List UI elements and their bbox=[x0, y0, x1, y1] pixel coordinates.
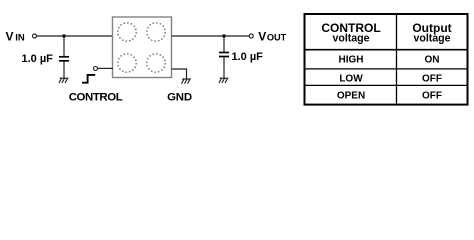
control step waveform symbol bbox=[82, 75, 95, 83]
IC pad circle top-left bbox=[118, 23, 136, 41]
IC U1 body bbox=[113, 17, 172, 78]
table header divider bbox=[305, 49, 468, 51]
svg-text:GND: GND bbox=[167, 92, 192, 104]
ground (GND pin) bbox=[182, 79, 191, 84]
svg-text:HIGH: HIGH bbox=[339, 54, 364, 65]
wire IC GND pin bbox=[172, 69, 187, 79]
svg-text:voltage: voltage bbox=[332, 33, 369, 45]
svg-text:LOW: LOW bbox=[339, 73, 363, 84]
svg-text:1.0 µF: 1.0 µF bbox=[22, 53, 54, 65]
wire C2 to ground bbox=[223, 57, 225, 78]
IC pad circle top-right bbox=[147, 23, 165, 41]
svg-text:CONTROL: CONTROL bbox=[69, 92, 123, 104]
terminal VIN bbox=[33, 34, 37, 38]
table row divider 2 bbox=[305, 84, 468, 86]
node output junction bbox=[222, 34, 226, 38]
wire C1 to ground bbox=[63, 62, 65, 78]
svg-text:OFF: OFF bbox=[422, 90, 442, 101]
svg-text:OPEN: OPEN bbox=[337, 90, 365, 101]
ground (left capacitor) bbox=[59, 78, 68, 83]
svg-text:OFF: OFF bbox=[422, 73, 442, 84]
terminal VOUT bbox=[249, 34, 253, 38]
table row divider 1 bbox=[305, 68, 468, 70]
svg-text:V: V bbox=[6, 30, 14, 44]
table column divider bbox=[396, 14, 398, 105]
svg-text:1.0 µF: 1.0 µF bbox=[232, 51, 264, 63]
wire CONTROL to IC bbox=[98, 67, 113, 69]
table: truth table bbox=[305, 14, 468, 105]
capacitor C2 1.0 uF bbox=[219, 52, 229, 54]
IC pad circle bottom-right bbox=[147, 54, 165, 72]
svg-text:IN: IN bbox=[15, 33, 25, 44]
capacitor C1 1.0 uF bbox=[59, 56, 69, 58]
terminal CONTROL bbox=[94, 66, 98, 70]
IC pad circle bottom-left bbox=[118, 54, 136, 72]
table outer border bbox=[305, 14, 468, 105]
svg-text:OUT: OUT bbox=[267, 33, 287, 43]
svg-text:V: V bbox=[258, 30, 266, 44]
svg-text:ON: ON bbox=[425, 54, 440, 65]
wire IC to VOUT bbox=[172, 35, 250, 37]
ground (right capacitor) bbox=[219, 78, 228, 83]
wire VIN to IC bbox=[37, 35, 113, 37]
svg-text:voltage: voltage bbox=[413, 33, 450, 45]
wire junction to C1 bbox=[63, 36, 65, 56]
node input junction bbox=[62, 34, 66, 38]
wire junction to C2 bbox=[223, 36, 225, 52]
